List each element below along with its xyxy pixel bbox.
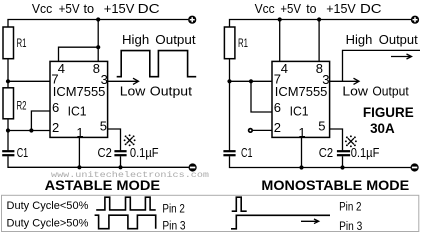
op-amp/timer IC1 body (left ICM7555) [50, 61, 108, 137]
svg-text:HighOutput: HighOutput [346, 32, 418, 47]
wire pin 5 to C2 (right) [330, 129, 343, 150]
capacitor C1 (left) [2, 146, 28, 160]
wire pin 6 L-link (left) [31, 111, 50, 131]
svg-text:0.1µF: 0.1µF [130, 146, 159, 160]
wire top rail (right circuit) [230, 20, 412, 29]
svg-text:ASTABLE MODE: ASTABLE MODE [45, 177, 161, 193]
svg-text:LowOutput: LowOutput [342, 84, 409, 99]
wire pin 8 drop from rail (right) [318, 20, 320, 62]
wire pin 3 output arrow (left) [108, 78, 139, 84]
svg-text:C2: C2 [98, 146, 112, 160]
node junction pin4/pin8 [96, 45, 100, 49]
svg-text:R1: R1 [17, 38, 27, 50]
node junction pin7 tap (right) [227, 79, 231, 83]
wire pin 4 L-link (left) [59, 47, 99, 61]
capacitor C1 (right) [223, 146, 252, 160]
wire pin 7 (right) [230, 80, 273, 82]
svg-text:2: 2 [52, 120, 59, 135]
wire R1 to C1 (right left rail) [229, 59, 231, 151]
arrow time direction (right panel pin 3) [301, 219, 319, 224]
svg-text:R1: R1 [238, 38, 248, 50]
wire R1 to R2 [7, 59, 9, 88]
wire top rail (left circuit) [8, 20, 188, 29]
node junction C2/bottom rail (right) [340, 165, 344, 169]
node junction pin1/bottom rail (left) [77, 165, 81, 169]
svg-text:Pin 3: Pin 3 [162, 221, 185, 233]
wire output step to high level (right) [343, 50, 421, 81]
svg-text:R2: R2 [17, 101, 27, 113]
svg-text:Pin 3: Pin 3 [339, 221, 362, 233]
wire pin 2 (left) [8, 130, 50, 132]
svg-text:6: 6 [274, 100, 281, 115]
node junction pin6 tie (right) [249, 79, 253, 83]
op-amp/timer IC1 body (right ICM7555) [272, 61, 330, 137]
node junction on top rail (left, pin8 tap) [96, 17, 100, 21]
wire R2 to C1 [7, 119, 9, 151]
node junction pin2 tap (left wire) [6, 128, 10, 132]
svg-text:6: 6 [52, 100, 59, 115]
svg-text:ICM7555: ICM7555 [53, 84, 106, 99]
svg-text:IC1: IC1 [68, 103, 87, 118]
wire pin 1 to bottom rail (right) [301, 137, 303, 167]
svg-text:Pin 2: Pin 2 [162, 204, 184, 216]
svg-text:Duty Cycle>50%: Duty Cycle>50% [7, 218, 89, 230]
waveform output step pin 3 (right panel) [231, 215, 330, 229]
node junction top rail pin4 (right) [278, 17, 282, 21]
node junction pin6/pin2 tie [29, 128, 33, 132]
svg-text:C1: C1 [17, 146, 29, 160]
wire C2 to bottom rail (left) [120, 156, 122, 167]
svg-text:Pin 2: Pin 2 [339, 201, 361, 213]
svg-text:30A: 30A [370, 120, 395, 136]
svg-text:LowOutput: LowOutput [120, 84, 193, 99]
power terminal + (right) [411, 16, 419, 24]
svg-text:HighOutput: HighOutput [122, 32, 196, 47]
svg-text:1: 1 [298, 125, 305, 140]
svg-text:Duty Cycle<50%: Duty Cycle<50% [7, 200, 89, 212]
wire pin 2 (right) [253, 129, 272, 131]
wire pin 5 to C2 (left) [108, 129, 121, 150]
waveform square wave output (left astable) [117, 51, 197, 77]
svg-text:IC1: IC1 [290, 103, 309, 118]
wire pin 3 output arrow (right) [330, 78, 359, 84]
svg-text:0.1µF: 0.1µF [351, 146, 380, 160]
wire C1 to bottom rail + bottom rail (left) [8, 156, 189, 167]
svg-text:ICM7555: ICM7555 [275, 84, 328, 99]
waveform duty cycle >50% pin 3 (left panel) [95, 215, 156, 229]
svg-text:FIGURE: FIGURE [363, 104, 414, 120]
svg-text:4: 4 [281, 61, 288, 76]
trigger terminal open circle pin 2 (right) [249, 129, 253, 133]
arrow time direction (right high output) [391, 54, 412, 59]
note asterisk mark (left C2) [124, 134, 136, 146]
wire pin 4 drop from rail (right) [279, 20, 281, 62]
node junction top rail pin8 (right) [317, 17, 321, 21]
waveform duty cycle <50% pin 2 (left panel) [96, 197, 156, 210]
capacitor C2 (right) [337, 151, 350, 155]
note asterisk mark (right C2) [345, 135, 357, 147]
wire C2 to bottom rail (right) [342, 156, 344, 167]
power terminal - (left) [189, 163, 197, 171]
svg-text:8: 8 [93, 61, 100, 76]
resistor R1 (left) [3, 27, 27, 59]
wire C1 to bottom rail + bottom rail (right) [230, 156, 411, 167]
waveform trigger pulse pin 2 (right panel) [232, 197, 247, 211]
svg-text:4: 4 [58, 61, 65, 76]
wire pin 8 drop from rail (left) [97, 20, 99, 62]
svg-text:2: 2 [274, 120, 281, 135]
node junction R1/R2/pin7 [6, 79, 10, 83]
power terminal + (left) [188, 16, 196, 24]
svg-text:MONOSTABLE MODE: MONOSTABLE MODE [261, 177, 409, 193]
node junction pin1/bottom rail (right) [299, 165, 303, 169]
svg-text:5: 5 [100, 119, 107, 134]
resistor R1 (right) [224, 27, 248, 59]
power terminal - (right) [411, 163, 419, 171]
svg-text:C2: C2 [319, 146, 333, 160]
resistor R2 (left) [3, 88, 27, 119]
capacitor C2 (left) [114, 151, 126, 155]
panel box bottom [2, 195, 419, 231]
svg-text:1: 1 [76, 125, 83, 140]
wire pin 7 (left) [8, 80, 50, 82]
svg-text:C1: C1 [241, 146, 253, 160]
node junction C2/bottom rail (left) [118, 165, 122, 169]
wire pin 1 to bottom rail (left) [78, 137, 80, 167]
wire pin 6 L-link (right) [251, 81, 272, 112]
svg-text:5: 5 [318, 119, 325, 134]
